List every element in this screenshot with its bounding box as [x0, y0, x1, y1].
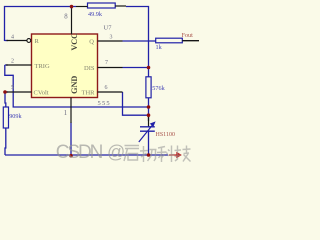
svg-text:8: 8	[64, 14, 68, 21]
pin 5 CVolt stub	[7, 91, 32, 93]
svg-text:576k: 576k	[152, 85, 165, 92]
svg-text:Fout: Fout	[182, 32, 194, 39]
wire: right rail 576k bottom to HS1100	[148, 98, 150, 122]
svg-text:VCC: VCC	[70, 33, 79, 51]
watermark CSDN text	[56, 142, 125, 163]
wire: DIS to right rail	[123, 67, 149, 69]
junction at HS1100/bottom rail	[147, 153, 151, 157]
junction at GND pin/bottom rail	[69, 154, 73, 158]
svg-text:@: @	[107, 142, 125, 162]
wire: top rail VCC net (left corner to 49.9k)	[5, 7, 77, 42]
pin 7 DIS stub	[98, 67, 123, 69]
svg-text:4: 4	[11, 34, 14, 40]
svg-text:909k: 909k	[9, 113, 22, 120]
wire: Q output to 1k	[123, 40, 156, 42]
pin 1 GND stub	[70, 98, 72, 124]
wire: TRIG pin to left	[5, 64, 8, 66]
resistor 1k right pin to Fout	[182, 40, 199, 42]
HS1100 arrow	[139, 125, 153, 142]
svg-text:1k: 1k	[156, 44, 163, 51]
pin 6 THR stub	[98, 91, 123, 93]
svg-text:U7: U7	[104, 25, 113, 32]
resistor 49.9k left pin	[76, 6, 88, 8]
pin 4 R pin stub with bubble	[7, 40, 27, 42]
wire: TRIG routing to right rail	[5, 65, 149, 107]
svg-text:49.9k: 49.9k	[88, 11, 103, 18]
junction at pin8/top rail	[70, 5, 74, 9]
pin 8 VCC stub	[71, 9, 73, 35]
svg-text:6: 6	[105, 85, 108, 91]
svg-text:HS1100: HS1100	[156, 132, 175, 138]
watermark glyph 技	[175, 146, 191, 162]
pin 2 TRIG stub	[6, 64, 32, 66]
wire: R pin to left rail	[5, 40, 9, 42]
watermark glyph 启	[124, 146, 139, 162]
resistor 49.9k body	[88, 3, 116, 8]
junction at CVolt/left rail	[3, 90, 7, 94]
svg-text:THR: THR	[82, 90, 96, 97]
wire: CVolt node down to 909k top	[4, 92, 7, 107]
wire: right rail DIS to 576k top	[148, 68, 150, 78]
junction at TRIG/right rail	[147, 105, 151, 109]
svg-text:GND: GND	[70, 76, 79, 94]
svg-text:R: R	[35, 38, 40, 45]
wire: pin1 GND drop	[70, 123, 72, 156]
svg-text:2: 2	[11, 58, 14, 64]
svg-text:3: 3	[110, 34, 113, 40]
junction at THR/right rail	[147, 113, 151, 117]
watermark glyph 科	[157, 146, 175, 163]
resistor 1k body	[156, 38, 183, 43]
junction at DIS/right rail	[147, 66, 151, 70]
svg-text:Q: Q	[89, 39, 94, 46]
humidity sensor HS1100 variable capacitor plates	[140, 127, 155, 131]
resistor 49.9k right pin	[115, 5, 126, 7]
svg-text:DIS: DIS	[84, 65, 95, 72]
resistor 909k body	[3, 107, 8, 128]
wire: CVolt pin to left rail	[5, 91, 8, 93]
op-amp/timer U1 555 chip body	[32, 34, 98, 98]
wire: pin8 VCC drop	[71, 7, 73, 10]
pin 3 Q stub	[98, 40, 123, 42]
svg-text:CVolt: CVolt	[34, 90, 49, 97]
svg-text:555: 555	[98, 100, 111, 107]
wire: bottom GND rail	[5, 154, 168, 156]
wire: THR routing to right rail	[123, 92, 149, 115]
svg-text:CSDN: CSDN	[56, 142, 103, 163]
wire: HS1100 bottom lead	[148, 131, 150, 155]
wire: top rail right segment (49.9k to right rail corner)	[126, 7, 149, 68]
power port GND arrow	[169, 154, 177, 156]
watermark glyph 初	[140, 146, 157, 162]
svg-text:TRIG: TRIG	[35, 63, 50, 70]
resistor 576k body	[146, 77, 151, 98]
svg-text:7: 7	[105, 60, 108, 66]
wire: left 909k bottom to GND rail	[4, 128, 7, 155]
svg-text:1: 1	[64, 110, 67, 117]
svg-text:5: 5	[11, 85, 14, 91]
